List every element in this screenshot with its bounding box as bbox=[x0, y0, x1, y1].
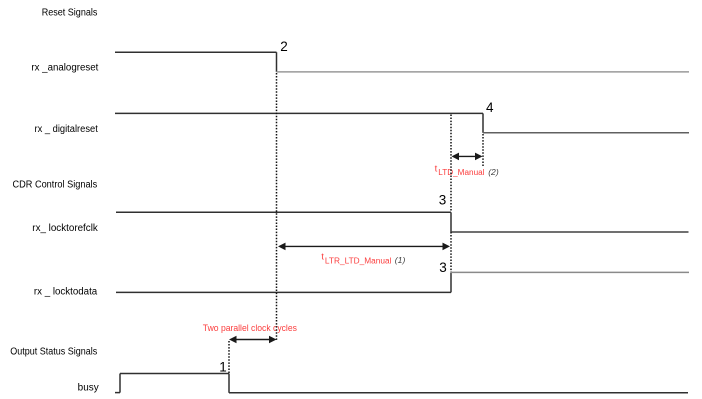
wire rx_locktodata high segment bbox=[451, 271, 689, 273]
wire busy initial low tail bbox=[115, 392, 120, 394]
arrow tLTR_LTD_Manual measurement bbox=[280, 245, 448, 247]
dotted guide line at analogreset edge x=276.5 bbox=[276, 73, 278, 341]
dotted guide line at locktorefclk edge x=451 upper bbox=[450, 115, 452, 213]
svg-text:LTR_LTD_Manual: LTR_LTD_Manual bbox=[325, 256, 392, 265]
svg-text:rx_ locktorefclk: rx_ locktorefclk bbox=[32, 223, 98, 234]
svg-text:3: 3 bbox=[439, 260, 447, 275]
svg-text:4: 4 bbox=[486, 100, 494, 115]
wire rx_locktorefclk falling edge bbox=[450, 212, 452, 232]
wire rx_digitalreset low segment bbox=[483, 132, 689, 134]
svg-text:busy: busy bbox=[78, 383, 99, 394]
wire rx_digitalreset high segment bbox=[115, 112, 483, 114]
wire rx_analogreset low segment bbox=[277, 71, 690, 73]
wire busy falling edge bbox=[228, 374, 230, 393]
dotted guide line at digitalreset edge x=483 bbox=[482, 134, 484, 166]
wire rx_locktorefclk low segment bbox=[451, 231, 689, 233]
svg-text:rx _ locktodata: rx _ locktodata bbox=[34, 286, 98, 297]
svg-text:3: 3 bbox=[439, 193, 447, 208]
dotted guide line at locktorefclk edge x=451 lower bbox=[450, 232, 452, 272]
arrow two parallel clock cycles measurement bbox=[231, 339, 275, 341]
svg-text:(1): (1) bbox=[395, 255, 406, 265]
wire rx_analogreset falling edge bbox=[276, 52, 278, 72]
wire rx_locktorefclk high segment bbox=[116, 211, 451, 213]
wire busy low segment bbox=[229, 392, 688, 394]
wire rx_digitalreset falling edge bbox=[482, 113, 484, 132]
svg-text:rx _analogreset: rx _analogreset bbox=[31, 63, 98, 74]
wire rx_locktodata low segment bbox=[116, 291, 451, 293]
svg-text:1: 1 bbox=[219, 360, 227, 375]
svg-text:2: 2 bbox=[280, 39, 288, 54]
svg-text:Two parallel clock cycles: Two parallel clock cycles bbox=[203, 322, 297, 333]
svg-text:t: t bbox=[321, 251, 324, 262]
wire rx_locktodata rising edge bbox=[450, 272, 452, 292]
wire busy rising edge bbox=[119, 374, 121, 393]
svg-text:Reset Signals: Reset Signals bbox=[42, 7, 98, 18]
wire busy high segment bbox=[120, 373, 229, 375]
svg-text:t: t bbox=[435, 164, 438, 175]
svg-text:LTD_Manual: LTD_Manual bbox=[438, 168, 484, 177]
svg-text:rx _ digitalreset: rx _ digitalreset bbox=[35, 124, 99, 135]
wire rx_analogreset high segment bbox=[115, 51, 277, 53]
svg-text:CDR Control Signals: CDR Control Signals bbox=[13, 180, 98, 191]
svg-text:Output Status Signals: Output Status Signals bbox=[10, 347, 97, 358]
svg-text:(2): (2) bbox=[488, 167, 499, 177]
dotted guide line at busy edge x=229 bbox=[228, 341, 230, 373]
arrow tLTD_Manual measurement bbox=[453, 155, 481, 157]
